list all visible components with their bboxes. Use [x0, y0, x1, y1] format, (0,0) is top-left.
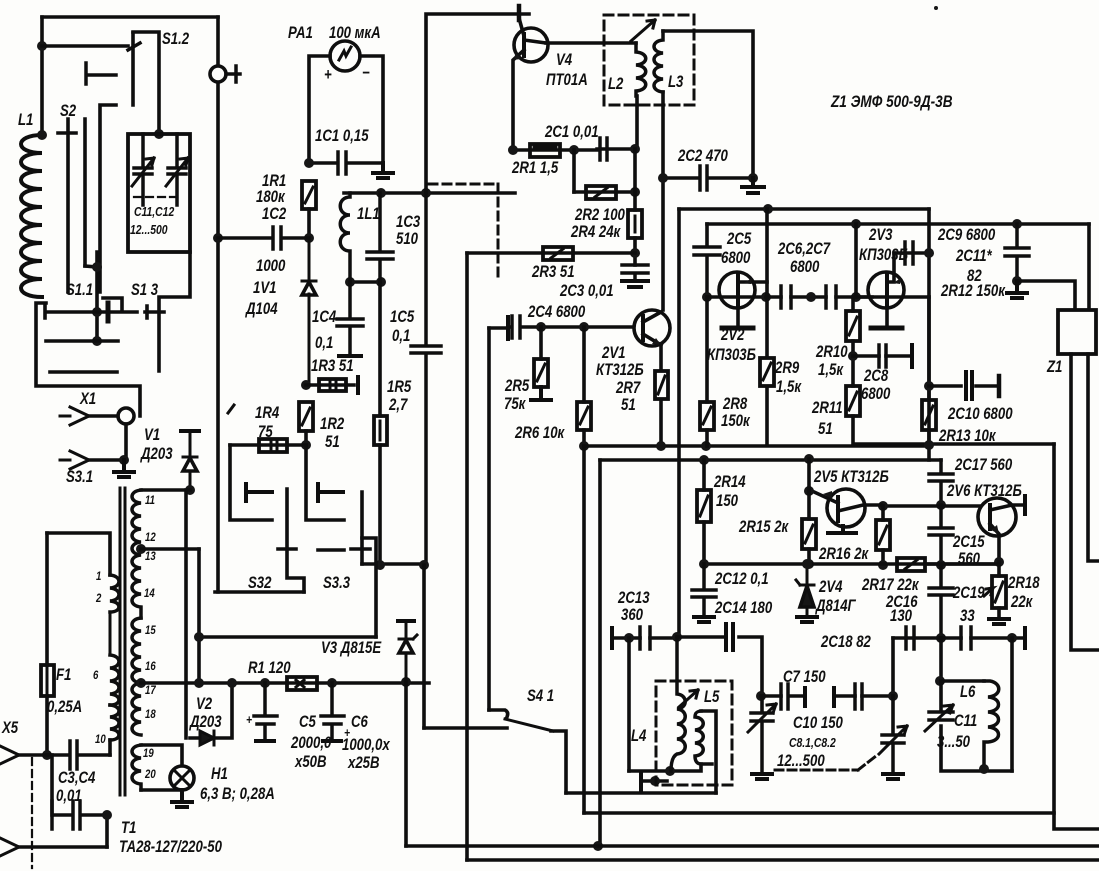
- resistor 2R6: [577, 402, 591, 430]
- node det L6: [1007, 633, 1017, 643]
- capacitor 2C18: [906, 627, 914, 649]
- terminal det bar: [1023, 628, 1027, 648]
- svg-text:2R14: 2R14: [713, 473, 746, 492]
- wire 2R16 drop: [881, 506, 885, 520]
- switch S3.3 contact segment: [318, 548, 344, 552]
- svg-text:51: 51: [818, 420, 833, 439]
- switch S1.2 blade tick: [128, 43, 140, 50]
- wire AF mid row: [704, 562, 999, 566]
- wire 2C4 stub: [489, 326, 508, 330]
- wire S2 to S1.1: [85, 266, 97, 267]
- connector X5 arrow b: [0, 838, 19, 856]
- lamp H1: [170, 766, 194, 790]
- connector jack circle: [210, 66, 226, 82]
- diode V3 triangle: [399, 640, 413, 653]
- svg-text:Х5: Х5: [1, 719, 19, 738]
- svg-text:1,5к: 1,5к: [818, 361, 844, 380]
- svg-text:1,5к: 1,5к: [776, 378, 802, 397]
- wire AF block drop: [1054, 444, 1099, 829]
- node 2R8 rail: [701, 441, 711, 451]
- wire tank bottom: [349, 280, 381, 284]
- node 2V3 gate: [851, 292, 861, 302]
- resistor 1R3: [306, 383, 354, 387]
- switch S2 pole 2: [83, 119, 87, 266]
- switch S2 pole 1: [66, 119, 70, 292]
- wire 2R17 to emitter: [925, 562, 999, 566]
- switch S3.2 contact T: [246, 484, 272, 501]
- ground 2R5: [531, 387, 551, 400]
- terminal 2C8 bar: [910, 345, 914, 367]
- wire rect drop x184: [184, 490, 188, 738]
- svg-text:S32: S32: [248, 574, 272, 593]
- resistor 1R2: [299, 402, 313, 431]
- resistor 2R4: [628, 210, 642, 238]
- wire 2C5 drop: [705, 224, 709, 245]
- svg-text:1С2: 1С2: [262, 205, 287, 224]
- svg-text:2V6 КТ312Б: 2V6 КТ312Б: [946, 482, 1022, 501]
- svg-text:1С1 0,15: 1С1 0,15: [315, 127, 369, 146]
- transistor 2V3 gate arrow: [893, 278, 901, 284]
- svg-text:КТ312Б: КТ312Б: [596, 361, 644, 380]
- svg-text:11: 11: [145, 494, 155, 507]
- svg-text:Х1: Х1: [79, 390, 96, 409]
- node 2R1 left: [508, 145, 518, 155]
- resistor 1R4 bar inner: [271, 439, 277, 452]
- svg-text:1000: 1000: [256, 257, 286, 276]
- tank L6 box left: [941, 681, 1012, 771]
- node 2R15 bottom: [804, 559, 814, 569]
- ground 1C1 right: [373, 163, 393, 178]
- terminal 2C10 bar: [997, 376, 1002, 396]
- ground 2V4: [797, 617, 817, 622]
- resistor 2R2 slash: [595, 188, 607, 197]
- svg-text:0,01: 0,01: [56, 787, 82, 806]
- resistor 2R3 slash: [551, 249, 563, 258]
- svg-text:2С12 0,1: 2С12 0,1: [714, 570, 768, 589]
- svg-text:2С11*: 2С11*: [955, 247, 993, 266]
- capacitor 2C17: [929, 460, 953, 505]
- resistor 2R14 slash: [700, 496, 708, 516]
- diode V2: [200, 731, 214, 745]
- node tap 12: [136, 544, 146, 554]
- svg-text:0,1: 0,1: [392, 327, 410, 346]
- capacitor 2C15: [929, 505, 953, 565]
- svg-text:Z1: Z1: [1046, 358, 1062, 377]
- svg-text:2R18: 2R18: [1007, 574, 1040, 593]
- variable capacitor C8.1 arrow: [748, 704, 776, 732]
- resistor 2R16: [876, 520, 890, 550]
- node rail B 2C11: [1012, 219, 1022, 229]
- capacitor 2C16: [929, 565, 953, 638]
- node box top: [154, 129, 164, 139]
- wire L5 right riser: [701, 711, 716, 793]
- stray tick mid left: [228, 405, 234, 413]
- svg-text:2R11: 2R11: [811, 399, 842, 418]
- switch S2 pole 3: [100, 105, 116, 292]
- node S1.1 a: [92, 262, 102, 272]
- wire L3 bottom drop mixer collector: [661, 92, 665, 310]
- ground 2C2: [742, 178, 764, 193]
- svg-text:130: 130: [890, 607, 913, 626]
- capacitor C7: [781, 684, 788, 709]
- svg-text:6800: 6800: [721, 249, 751, 268]
- node tap 16: [136, 678, 146, 688]
- inductor L5 core arrow: [679, 690, 698, 707]
- diode V1 triangle: [183, 458, 197, 471]
- wire 2R10 drop: [851, 297, 855, 311]
- capacitor 2C3: [622, 265, 648, 280]
- capacitor 2C12: [692, 564, 716, 615]
- wire 2C4 feed drop: [487, 328, 491, 710]
- svg-text:S3.3: S3.3: [323, 574, 351, 593]
- node signal bus: [593, 841, 603, 851]
- node 2C16 bottom: [936, 633, 946, 643]
- ground C8.1: [752, 774, 772, 779]
- ground 2C11: [1007, 281, 1027, 298]
- boundary dashed X5: [31, 758, 33, 868]
- node S3.1: [119, 455, 129, 465]
- ground H1: [172, 790, 192, 807]
- svg-text:С11,С12: С11,С12: [134, 205, 175, 219]
- wire F1 bottom: [45, 696, 49, 755]
- wire V4 base riser: [426, 14, 529, 193]
- node L6 bottom: [979, 764, 989, 774]
- wire 2R12 top: [927, 297, 931, 400]
- svg-text:+: +: [246, 713, 252, 727]
- svg-text:2V1: 2V1: [601, 344, 625, 363]
- svg-text:С7 150: С7 150: [783, 668, 826, 687]
- capacitor 2C19: [961, 627, 971, 649]
- svg-text:2R6 10к: 2R6 10к: [514, 424, 565, 443]
- svg-text:2С15: 2С15: [952, 533, 985, 552]
- wire L2 bottom drop: [635, 96, 639, 149]
- svg-text:2С6,2С7: 2С6,2С7: [777, 240, 831, 259]
- node tank top L1: [376, 188, 386, 198]
- node 2C2 left: [658, 173, 668, 183]
- svg-text:2R16 2к: 2R16 2к: [818, 545, 869, 564]
- transistor 2V5 collector lead: [838, 505, 881, 511]
- wire 2R14 chain: [702, 460, 706, 564]
- inductor L6: [984, 681, 999, 771]
- transistor 2V5 bottom stub: [828, 526, 856, 533]
- wire tap 12 row: [141, 547, 199, 551]
- svg-text:510: 510: [396, 230, 419, 249]
- wire 2R13 row: [929, 430, 1054, 460]
- contact bar S1.3: [106, 303, 111, 321]
- resistor 2R9 slash: [763, 363, 771, 380]
- node 1C2 right: [304, 233, 314, 243]
- variable capacitor C11 arrow: [925, 705, 953, 731]
- node 2V2 gate: [702, 292, 712, 302]
- svg-text:1С4: 1С4: [312, 308, 337, 327]
- svg-text:0,1: 0,1: [315, 334, 333, 353]
- node 2C1 right: [630, 144, 640, 154]
- variable capacitor C1.1 arrow: [132, 158, 154, 186]
- resistor 2R16 slash: [879, 526, 887, 544]
- wire S1.2 feed: [42, 44, 128, 48]
- node tank gnd: [650, 776, 660, 786]
- bus ground long: [406, 844, 1099, 848]
- svg-text:С8.1,С8.2: С8.1,С8.2: [789, 736, 836, 750]
- inductor L3: [654, 31, 663, 92]
- svg-text:75: 75: [258, 423, 273, 442]
- svg-text:1С3: 1С3: [396, 213, 421, 232]
- capacitor 2C9: [905, 242, 913, 264]
- svg-text:2R15 2к: 2R15 2к: [738, 518, 789, 537]
- svg-text:2С19: 2С19: [952, 584, 985, 603]
- inductor unit L2 L3 dashed box: [604, 15, 694, 105]
- svg-text:ТА28-127/220-50: ТА28-127/220-50: [119, 838, 223, 857]
- svg-text:3...50: 3...50: [937, 733, 971, 752]
- svg-text:12: 12: [145, 531, 156, 544]
- transistor 2V5 emitter arrow: [823, 491, 832, 499]
- node 2R14 bottom: [699, 559, 709, 569]
- resistor 2R14: [697, 490, 711, 522]
- wire 2V1 emitter drop: [659, 345, 663, 446]
- wire S1.1 row2: [46, 339, 118, 343]
- node S3 tap: [194, 632, 204, 642]
- resistor R1 x mark: [296, 680, 304, 687]
- svg-text:РА1: РА1: [288, 24, 313, 43]
- svg-text:Д203: Д203: [188, 713, 222, 732]
- transformer T1 core: [120, 488, 125, 795]
- terminal V3 bar: [398, 619, 414, 623]
- wire 1R4 left drop: [230, 445, 272, 520]
- svg-text:С6: С6: [351, 713, 368, 732]
- svg-text:6800: 6800: [861, 385, 891, 404]
- terminal V1 bar: [181, 429, 199, 433]
- wire rail B corner to Z1: [1087, 224, 1091, 310]
- variable capacitor C11: [929, 712, 953, 720]
- connector S3.1 arrow: [60, 451, 89, 469]
- capacitor C5 bottom bar: [256, 739, 274, 743]
- wire 1R2 to 1R4 node: [304, 431, 308, 445]
- svg-text:Д203: Д203: [139, 445, 173, 464]
- svg-text:2R17 22к: 2R17 22к: [861, 576, 920, 595]
- transistor 2V1: [634, 310, 670, 346]
- svg-text:2,7: 2,7: [388, 396, 408, 415]
- resistor 2R10: [846, 311, 860, 341]
- wire lamp bottom: [141, 788, 182, 792]
- node X5 a: [42, 750, 52, 760]
- svg-text:20: 20: [144, 768, 156, 781]
- variable capacitor C1.2 arrow: [166, 158, 188, 186]
- node 2V6 base: [936, 500, 946, 510]
- node 2V2 source out: [761, 292, 771, 302]
- svg-text:2С18 82: 2С18 82: [820, 633, 871, 652]
- svg-text:2С2 470: 2С2 470: [677, 147, 728, 166]
- svg-text:2R2 100: 2R2 100: [574, 206, 625, 225]
- node 2R12 bottom: [924, 440, 934, 450]
- svg-text:S1.2: S1.2: [162, 30, 190, 49]
- node 2C10 left: [924, 381, 934, 391]
- wire 2R5 drop: [539, 327, 543, 359]
- svg-text:L2: L2: [608, 75, 624, 94]
- svg-text:1С5: 1С5: [390, 308, 415, 327]
- switch S3.3 riser: [362, 538, 376, 637]
- svg-text:S1.1: S1.1: [66, 281, 93, 300]
- transistor 2V2 source stub: [736, 307, 740, 326]
- wire 2R16 bottom: [881, 550, 885, 565]
- terminal 1C4 bar: [339, 354, 361, 358]
- capacitor 2C2: [663, 166, 753, 190]
- switch S2 tick: [58, 131, 76, 135]
- boundary dashed vertical: [497, 184, 500, 281]
- ground C8.2: [883, 774, 903, 779]
- svg-text:Д104: Д104: [244, 300, 278, 319]
- resistor 2R15: [802, 519, 816, 549]
- terminal 2C4 bar: [506, 317, 510, 339]
- variable capacitor C1.2: [168, 134, 186, 205]
- filter Z1 box: [1058, 310, 1096, 354]
- transistor 2V5 emitter lead: [809, 491, 838, 503]
- meter PA1 needle glyph: [339, 47, 351, 60]
- wire S1.2 to cap box top: [133, 32, 159, 134]
- wire PA1 right lead: [360, 56, 383, 163]
- transistor 2V5 base bar inner: [836, 497, 840, 521]
- node 2V4 top: [802, 559, 812, 569]
- svg-text:2С17 560: 2С17 560: [954, 456, 1013, 475]
- wire C7 row: [761, 694, 805, 698]
- resistor 2R10 slash: [849, 317, 857, 335]
- svg-text:С5: С5: [299, 713, 316, 732]
- wire X5 b: [19, 845, 107, 849]
- svg-text:2С5: 2С5: [726, 230, 752, 249]
- wire tap drop x199: [197, 549, 201, 683]
- resistor 2R18: [992, 576, 1006, 608]
- switch S1.2 pole line: [131, 33, 135, 105]
- node C5: [260, 678, 270, 688]
- capacitor 2C1: [597, 138, 632, 160]
- wire box bottom to S1.3: [159, 252, 190, 371]
- capacitor 2C8: [879, 345, 886, 367]
- node 2R6 top: [579, 322, 589, 332]
- resistor 2R7 slash: [658, 376, 665, 394]
- node S1.1 b: [92, 307, 102, 317]
- capacitor 2C14: [726, 624, 733, 650]
- resistor 2R5 slash: [537, 364, 545, 381]
- node C10 right: [888, 691, 898, 701]
- wire det row: [893, 636, 1025, 640]
- capacitor C3: [47, 741, 110, 769]
- capacitor 2C5: [694, 247, 720, 297]
- wire 2C8 row: [853, 354, 912, 358]
- fuse F1 line: [46, 665, 49, 696]
- svg-text:2R4 24к: 2R4 24к: [570, 223, 621, 242]
- diode 2V4 zener: [796, 564, 814, 615]
- svg-text:L4: L4: [631, 727, 647, 746]
- inductor L2 core arrow: [631, 20, 655, 41]
- node 2V5 collector: [878, 501, 888, 511]
- svg-text:1: 1: [96, 570, 101, 583]
- node 2C13 left: [624, 633, 634, 643]
- wire C10 row: [834, 694, 894, 698]
- wire 2R11 bottom corner: [853, 416, 929, 444]
- wire C8.2 drop: [891, 696, 895, 733]
- transistor V4 base bar inner: [522, 34, 526, 56]
- resistor 1R1: [302, 181, 316, 209]
- node rail A 2V2: [763, 204, 773, 214]
- diode V1: [183, 431, 197, 490]
- wire C4 right riser: [105, 815, 109, 847]
- svg-text:6,3 В; 0,28А: 6,3 В; 0,28А: [200, 785, 275, 804]
- svg-text:S3.1: S3.1: [66, 468, 93, 487]
- capacitor 1C4: [337, 282, 363, 355]
- node 2C13 right: [672, 632, 682, 642]
- diode 1V1 triangle: [302, 282, 316, 295]
- wire 1R1 to 1C2 node: [307, 209, 311, 238]
- wire L6 right drop: [1010, 638, 1014, 771]
- svg-text:2R8: 2R8: [722, 395, 748, 414]
- wire L3 top to 2C2 drop: [663, 31, 753, 178]
- wire 2R18 chain: [997, 562, 1001, 617]
- transistor V4 collector lead: [524, 40, 546, 43]
- svg-text:V3 Д815Е: V3 Д815Е: [321, 639, 382, 658]
- capacitor C6: [321, 683, 344, 740]
- wire X1 arrow to socket: [89, 414, 118, 418]
- transistor 2V3 source bar: [871, 326, 902, 331]
- node C6: [327, 678, 337, 688]
- wire winding11 top: [141, 488, 190, 492]
- wire V3 to bus: [404, 682, 408, 846]
- switch S4.1 blade: [505, 719, 553, 731]
- svg-text:2R9: 2R9: [774, 359, 800, 378]
- svg-text:10: 10: [95, 733, 106, 746]
- wire IF box left edge: [677, 209, 681, 637]
- wire IF box right edge: [927, 209, 931, 443]
- contact T dangling: [86, 63, 116, 84]
- wire S4.1 output: [551, 731, 566, 793]
- wire det riser: [891, 638, 895, 696]
- wire 2C13 row: [612, 636, 677, 640]
- node 2R5 top: [536, 322, 546, 332]
- node tap x199: [194, 678, 204, 688]
- resistor 1R5: [374, 416, 387, 445]
- transistor 2V6 collector lead: [990, 505, 1025, 510]
- svg-text:R1 120: R1 120: [248, 659, 291, 678]
- resistor 2R7: [655, 371, 668, 399]
- svg-text:2000,0: 2000,0: [290, 734, 332, 753]
- svg-text:2R13 10к: 2R13 10к: [938, 427, 997, 446]
- terminal 1R3 bar: [356, 377, 360, 393]
- ground 2C12: [694, 617, 714, 622]
- svg-text:19: 19: [143, 747, 154, 760]
- resistor 2R11 slash: [849, 392, 857, 410]
- node 2V6 emitter: [994, 557, 1004, 567]
- resistor 2R15 slash: [805, 525, 813, 543]
- wire 2R3 row: [467, 251, 635, 255]
- wire 1R5 vertical: [378, 282, 382, 565]
- node 2C9 right: [924, 248, 934, 258]
- transformer T1 lamp winding: [132, 745, 141, 790]
- svg-text:х50В: х50В: [294, 753, 327, 772]
- svg-text:2R12 150к: 2R12 150к: [940, 282, 1006, 301]
- wire 2R4 to 2R3 node: [633, 238, 637, 265]
- switch S3.2 tick: [278, 547, 296, 551]
- transistor V4 base lead: [519, 18, 524, 36]
- wire signal drop to bus: [598, 460, 602, 846]
- wire emitter rail: [584, 444, 929, 448]
- svg-text:2С10 6800: 2С10 6800: [947, 405, 1013, 424]
- svg-text:V4: V4: [556, 51, 573, 70]
- wire L6 left chain: [939, 638, 943, 681]
- wire Z1 out pin1: [1071, 354, 1099, 650]
- node S4 feed: [419, 560, 429, 570]
- resistor 2R4 bar inner: [634, 216, 637, 232]
- svg-text:V2: V2: [196, 695, 213, 714]
- capacitor 1C1: [309, 152, 383, 174]
- svg-text:2V2: 2V2: [720, 326, 745, 345]
